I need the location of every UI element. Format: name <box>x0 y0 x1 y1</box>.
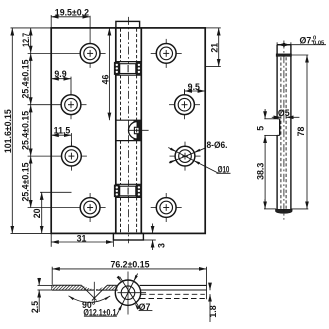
barrel hidden hole line right <box>136 29 138 234</box>
screw hole L4 <box>28 193 106 222</box>
leader phi7 bottom <box>120 277 141 310</box>
dim 2.5 <box>38 278 53 312</box>
bottom view right leaf closed lines <box>140 284 207 286</box>
screw hole R2 <box>169 90 200 119</box>
leader 8-phi6 through hole R3 <box>169 148 206 164</box>
svg-text:31: 31 <box>77 233 87 243</box>
svg-text:25.4±0.15: 25.4±0.15 <box>21 162 31 201</box>
barrel left outer line <box>115 28 117 234</box>
dim 5 and 38.3 chain <box>264 109 277 209</box>
dim phi5 <box>272 116 300 118</box>
side view hidden pin hole lines <box>280 57 282 209</box>
svg-text:3: 3 <box>157 243 167 248</box>
bottom knuckle joint band <box>114 184 142 197</box>
barrel hidden hole line left <box>120 29 122 234</box>
bottom view barrel circle <box>115 280 140 305</box>
svg-text:0.05: 0.05 <box>313 40 325 46</box>
barrel bottom cap <box>113 233 143 240</box>
svg-text:101.6±0.15: 101.6±0.15 <box>3 109 13 153</box>
screw hole R3 <box>170 142 201 171</box>
90 degree arc <box>69 296 111 303</box>
screw hole L1 <box>28 16 106 68</box>
dim 21 <box>205 28 221 67</box>
barrel right outer line <box>140 28 142 234</box>
svg-text:1.8: 1.8 <box>208 305 218 317</box>
side view <box>276 41 293 220</box>
dim 9.9 <box>51 77 71 95</box>
svg-text:Ø5: Ø5 <box>278 108 290 118</box>
side view centerline <box>283 41 285 220</box>
top knuckle joint band <box>114 62 142 76</box>
bottom view right leaf open dashed <box>141 293 205 295</box>
screw holes <box>28 16 201 222</box>
svg-text:9.9: 9.9 <box>54 69 66 79</box>
leader phi10 through hole R3 <box>168 148 230 174</box>
svg-text:25.4±0.15: 25.4±0.15 <box>21 59 31 98</box>
dim 1.8 <box>209 285 211 323</box>
leader phi12.1 <box>117 274 138 316</box>
svg-text:2.5: 2.5 <box>30 301 40 313</box>
side view step lines <box>277 118 280 120</box>
svg-text:19.5±0.2: 19.5±0.2 <box>55 8 89 18</box>
svg-text:9.5: 9.5 <box>188 82 200 92</box>
dim 9.5 <box>185 89 206 95</box>
svg-text:46: 46 <box>101 75 111 85</box>
dim 78 <box>292 55 309 209</box>
screw hole R4 <box>151 193 182 222</box>
dim 31 <box>51 234 113 247</box>
dim 11.5 <box>51 133 71 146</box>
svg-text:Ø7: Ø7 <box>139 302 151 312</box>
bottom view <box>52 272 207 317</box>
dim chain column 12.7 / 25.4x3 <box>30 28 32 208</box>
dim 76.2 <box>52 267 206 300</box>
svg-text:11.5: 11.5 <box>54 126 71 136</box>
barrel top cap <box>116 21 140 28</box>
svg-text:12.7: 12.7 <box>21 33 31 47</box>
svg-text:Ø12.1±0.1: Ø12.1±0.1 <box>83 307 116 317</box>
bottom view left leaf bar <box>52 284 82 286</box>
side view bottom cap <box>276 209 293 213</box>
dim 3 <box>144 224 156 251</box>
screw hole R1 <box>151 39 182 68</box>
svg-text:20: 20 <box>32 208 42 218</box>
dim 101.6 <box>11 28 52 234</box>
dim 20 <box>40 192 72 233</box>
dim 46 <box>108 28 110 120</box>
svg-text:8-Ø6.: 8-Ø6. <box>207 140 228 150</box>
svg-text:76.2±0.15: 76.2±0.15 <box>110 259 149 269</box>
svg-text:21: 21 <box>210 43 220 53</box>
countersink V slope lines <box>82 285 97 300</box>
svg-text:5: 5 <box>255 126 265 131</box>
front view plate outline <box>51 28 205 234</box>
dim 19.5 <box>51 15 90 27</box>
side view outline <box>277 44 291 46</box>
screw hole L2 <box>28 90 87 119</box>
middle knuckle joint detail <box>116 120 149 140</box>
screw hole L3 <box>28 142 87 171</box>
svg-text:78: 78 <box>296 127 306 137</box>
side view top washer band <box>276 54 291 56</box>
dim phi7 top <box>277 42 326 44</box>
svg-text:Ø10: Ø10 <box>218 164 230 174</box>
svg-text:25.4±0.15: 25.4±0.15 <box>21 111 31 150</box>
barrel centerline <box>128 17 130 243</box>
svg-text:38.3: 38.3 <box>256 163 266 180</box>
